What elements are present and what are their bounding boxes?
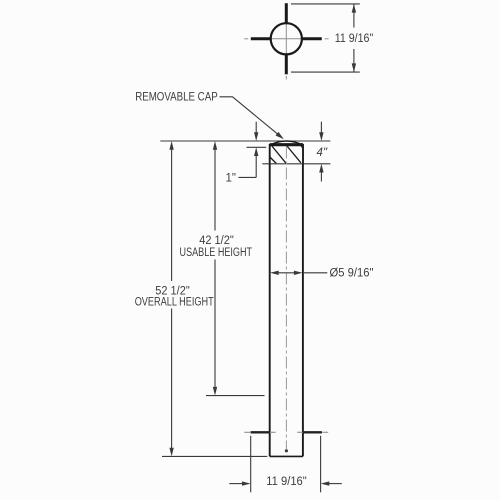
- removable cap: dome arc: [270, 141, 304, 145]
- anchor bar right centerline dashes: [297, 431, 328, 433]
- removable cap: right wall: [302, 144, 304, 164]
- removable cap: thick top band: [270, 143, 304, 146]
- svg-text:11 9/16": 11 9/16": [335, 33, 374, 45]
- dimension 52 1/2: vertical line with arrows: [171, 149, 173, 450]
- top view: anchor bar tabs (thick cross bars): [251, 3, 322, 74]
- leader line to cap: [220, 97, 282, 138]
- centerline end dot: [285, 449, 288, 452]
- svg-text:42 1/2": 42 1/2": [199, 235, 234, 247]
- leader arrowhead: [276, 132, 284, 139]
- dimension 11 9/16 (top view, right): extension lines: [291, 4, 360, 72]
- post: right wall: [302, 164, 304, 457]
- dimension diameter: arrows inside post: [277, 272, 327, 274]
- top view: vertical centerline (thin gray): [285, 23, 287, 80]
- top reference line (top of cap): [160, 140, 330, 142]
- svg-text:OVERALL HEIGHT: OVERALL HEIGHT: [135, 296, 214, 308]
- removable cap: section hatch lines: [270, 146, 303, 164]
- svg-text:4": 4": [317, 147, 328, 159]
- top view: post circle: [271, 23, 302, 54]
- svg-text:1": 1": [226, 173, 236, 185]
- dimension 1" : lower reference tick: [247, 146, 267, 148]
- dimension 42 1/2: bottom reference tick: [206, 395, 265, 397]
- removable cap: left wall: [269, 144, 271, 164]
- dimension 11 9/16 (bottom): extension lines: [251, 436, 321, 493]
- dimension 11 9/16 (bottom): outside arrows: [229, 483, 243, 485]
- svg-text:USABLE HEIGHT: USABLE HEIGHT: [180, 247, 253, 259]
- svg-text:11 9/16": 11 9/16": [266, 476, 307, 488]
- anchor bar left centerline dashes: [244, 431, 275, 433]
- top view: horizontal centerline (thin gray): [244, 38, 328, 40]
- svg-text:REMOVABLE CAP: REMOVABLE CAP: [135, 91, 218, 103]
- dimension 52 1/2: bottom reference line: [162, 455, 267, 457]
- anchor bar right (thick): [303, 431, 322, 433]
- post: vertical centerline (dash-dot): [285, 147, 287, 450]
- dimension 1" : upper arrow (points down to top line): [255, 122, 257, 134]
- post: bottom edge: [270, 455, 303, 457]
- dimension 4" : upper arrow (points down to top line): [320, 122, 322, 134]
- svg-text:Ø5 9/16": Ø5 9/16": [330, 268, 374, 280]
- dimension 4" : lower arrow (points up to cap bottom line): [320, 171, 322, 182]
- anchor bar left (thick): [251, 431, 270, 433]
- cap bottom line / 4" lower reference: [262, 163, 330, 165]
- dimension 1" : lower arrow (points up to tick) and leader: [255, 155, 257, 178]
- dimension 42 1/2: vertical line with arrows: [214, 149, 216, 389]
- dimension 11 9/16 (top view): dimension line with arrows: [353, 4, 355, 72]
- post: left wall: [269, 164, 271, 457]
